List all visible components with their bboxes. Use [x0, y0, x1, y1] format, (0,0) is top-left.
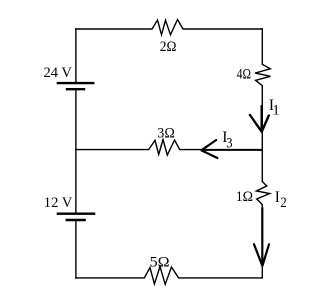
- svg-text:I: I: [275, 189, 280, 206]
- svg-text:12 V: 12 V: [44, 195, 73, 211]
- svg-text:3: 3: [226, 136, 232, 152]
- svg-text:2Ω: 2Ω: [160, 39, 177, 55]
- svg-text:5Ω: 5Ω: [150, 254, 170, 270]
- svg-text:24 V: 24 V: [44, 65, 73, 81]
- svg-text:1: 1: [272, 103, 279, 119]
- svg-text:4Ω: 4Ω: [237, 66, 251, 82]
- svg-text:3Ω: 3Ω: [157, 125, 175, 141]
- svg-text:2: 2: [280, 195, 286, 211]
- svg-text:1Ω: 1Ω: [236, 189, 253, 205]
